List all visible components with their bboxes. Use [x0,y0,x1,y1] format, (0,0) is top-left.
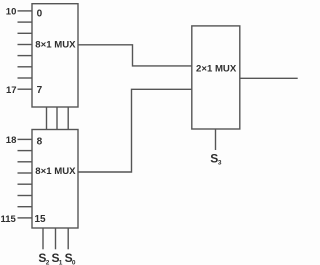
wire input 2 to U1 [18,32,33,34]
svg-text:3: 3 [218,160,222,167]
svg-text:18: 18 [6,135,17,146]
wire select S0 below U2 [67,228,69,249]
8x1 MUX U2 box [32,130,78,229]
wire input 10 to U2 [18,161,33,163]
svg-text:8×1 MUX: 8×1 MUX [35,166,76,177]
wire input I0 to U1 [18,10,33,12]
svg-text:7: 7 [37,85,43,96]
wire select S1 between U1 and U2 [56,107,58,130]
wire input I8 to U2 [18,138,33,140]
wire input 6 to U1 [18,77,33,79]
wire input 5 to U1 [18,66,33,68]
wire select S1 below U2 [55,228,57,249]
svg-text:15: 15 [35,214,47,225]
svg-text:2×1 MUX: 2×1 MUX [196,64,237,75]
wire select S2 below U2 [42,228,44,249]
2x1 MUX U3 box [192,26,240,129]
wire input I15 to U2 [18,217,33,219]
wire input 12 to U2 [18,183,33,185]
svg-text:8×1 MUX: 8×1 MUX [35,40,76,51]
svg-text:0: 0 [37,8,43,19]
wire input 3 to U1 [18,44,33,46]
svg-text:1: 1 [59,259,63,265]
wire U1 output to U3 input [78,45,192,66]
svg-text:10: 10 [6,7,17,18]
wire input 14 to U2 [18,206,33,208]
svg-text:0: 0 [72,259,76,265]
wire input 9 to U2 [18,150,33,152]
wire input 13 to U2 [18,195,33,197]
wire U3 output [240,77,298,79]
wire input 1 to U1 [18,21,33,23]
wire select S3 below U3 [215,129,217,150]
svg-text:2: 2 [46,259,50,265]
svg-text:17: 17 [6,85,17,96]
wire select S2 between U1 and U2 [46,107,48,130]
wire select S0 between U1 and U2 [67,107,69,130]
wire input 4 to U1 [18,55,33,57]
wire U2 output to U3 input [78,89,192,172]
svg-text:8: 8 [37,137,43,148]
8x1 MUX U1 box [32,4,78,107]
wire input 11 to U2 [18,172,33,174]
wire input I7 to U1 [18,88,33,90]
svg-text:115: 115 [1,214,17,225]
